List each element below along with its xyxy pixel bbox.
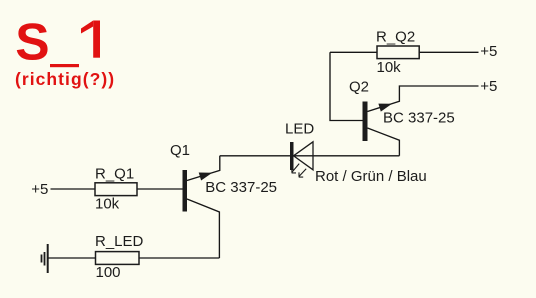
svg-text:+5: +5 bbox=[480, 43, 497, 60]
svg-text:+5: +5 bbox=[480, 78, 497, 95]
svg-text:LED: LED bbox=[285, 121, 314, 138]
svg-text:Q1: Q1 bbox=[170, 142, 190, 159]
svg-text:Rot / Grün / Blau: Rot / Grün / Blau bbox=[315, 168, 427, 185]
svg-text:(richtig(?)): (richtig(?)) bbox=[15, 69, 115, 89]
svg-text:Q2: Q2 bbox=[349, 79, 369, 96]
svg-text:R_Q2: R_Q2 bbox=[376, 29, 415, 46]
svg-text:+5: +5 bbox=[31, 181, 48, 198]
svg-text:S: S bbox=[15, 12, 49, 70]
svg-text:100: 100 bbox=[96, 264, 121, 281]
svg-text:10k: 10k bbox=[377, 59, 402, 76]
svg-text:R_LED: R_LED bbox=[95, 233, 144, 250]
svg-text:10k: 10k bbox=[95, 196, 120, 213]
svg-text:BC 337-25: BC 337-25 bbox=[383, 110, 455, 127]
svg-text:R_Q1: R_Q1 bbox=[95, 166, 134, 183]
svg-text:BC 337-25: BC 337-25 bbox=[205, 179, 277, 196]
